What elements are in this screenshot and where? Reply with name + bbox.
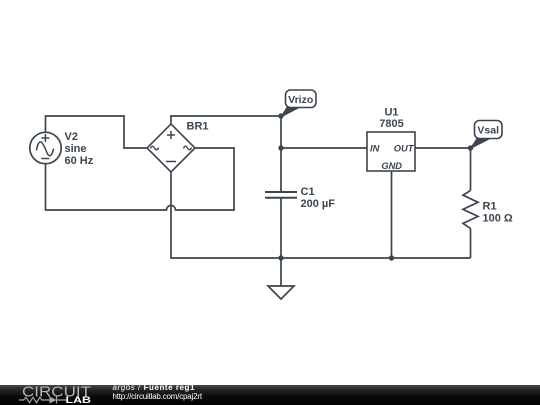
svg-text:200 µF: 200 µF	[301, 198, 336, 210]
wire Vrizo rail to U1 IN pin	[281, 147, 367, 149]
svg-text:7805: 7805	[379, 118, 403, 130]
svg-text:100 Ω: 100 Ω	[483, 213, 513, 225]
node junction dot ground rail	[278, 255, 283, 260]
wire U1 OUT pin to node Vsal	[415, 147, 471, 149]
svg-text:U1: U1	[384, 107, 398, 119]
svg-text:BR1: BR1	[187, 121, 209, 133]
wire V2 plus to bridge AC1 (left vertex)	[46, 116, 148, 148]
CircuitLab logo	[0, 385, 110, 405]
node junction dot GND pin rail	[389, 255, 394, 260]
svg-text:Vsal: Vsal	[477, 125, 499, 137]
voltage source V2	[30, 132, 61, 163]
svg-text:OUT: OUT	[394, 144, 415, 154]
wire bridge minus output down and bottom rail to R1 bottom	[171, 172, 471, 258]
svg-text:60 Hz: 60 Hz	[65, 155, 94, 167]
regulator U1 7805	[367, 132, 415, 171]
svg-text:IN: IN	[370, 144, 380, 154]
svg-text:sine: sine	[65, 143, 87, 155]
node junction dot Vsal	[468, 145, 473, 150]
label R1 value	[483, 201, 513, 225]
wire R1 bottom lead	[470, 228, 472, 258]
node flag Vsal	[471, 121, 503, 149]
footer text	[113, 384, 202, 401]
svg-text:GND: GND	[381, 161, 402, 171]
node junction dot Vrizo top	[278, 113, 283, 118]
svg-text:Vrizo: Vrizo	[288, 94, 313, 106]
wire node Vrizo down to C1 top	[280, 116, 282, 192]
svg-text:C1: C1	[301, 186, 315, 198]
wire C1 bottom to bottom rail	[280, 198, 282, 258]
footer bar	[0, 385, 540, 405]
resistor R1	[463, 191, 478, 229]
wire V2 minus to bridge AC2 (right vertex, with hop over bottom stub)	[46, 148, 235, 210]
bridge rectifier BR1	[147, 124, 195, 172]
wire bridge plus output to node Vrizo	[171, 116, 281, 124]
label V2 value	[65, 131, 94, 167]
wire U1 GND pin to bottom rail	[391, 171, 393, 258]
svg-text:LAB: LAB	[66, 395, 92, 405]
node flag Vrizo	[281, 90, 316, 117]
capacitor C1	[265, 192, 297, 198]
ground	[268, 258, 294, 299]
wire node Vsal down to R1 top	[470, 148, 472, 191]
node junction dot Vrizo/IN	[278, 145, 283, 150]
svg-text:V2: V2	[65, 131, 78, 143]
label C1 value	[301, 186, 336, 210]
svg-text:R1: R1	[483, 201, 497, 213]
label U1 value	[379, 107, 403, 131]
